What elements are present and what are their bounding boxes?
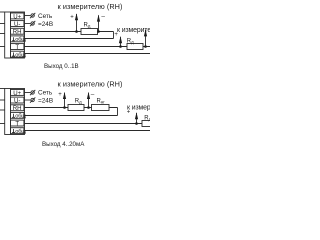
- node T +: [119, 45, 122, 48]
- terminal cell T: [11, 44, 24, 50]
- arrowhead + (meter T): [119, 36, 122, 43]
- terminal cell общ (1): [11, 36, 24, 42]
- svg-text:общ: общ: [15, 129, 26, 135]
- wire общ 2: [25, 130, 151, 132]
- wire U- to power terminal: [25, 23, 31, 25]
- wire общ 1: [25, 38, 114, 40]
- svg-text:Сеть: Сеть: [38, 13, 53, 20]
- terminal cell общ (2): [11, 128, 24, 134]
- terminal cell общ (1): [11, 112, 24, 118]
- svg-text:Выход 4..20мА: Выход 4..20мА: [42, 141, 85, 148]
- stub wire left mid: [0, 109, 5, 111]
- terminal label общ 2: [12, 52, 26, 58]
- terminal cell U-: [11, 97, 24, 103]
- svg-text:U+: U+: [13, 13, 21, 20]
- terminal label общ 1: [12, 37, 26, 43]
- svg-text:–: –: [91, 91, 95, 98]
- svg-text:RH: RH: [13, 105, 22, 112]
- terminal block X1 (top) outer: [5, 12, 25, 58]
- wire U- to power terminal: [25, 99, 31, 101]
- svg-text:+: +: [70, 14, 74, 20]
- svg-text:U+: U+: [13, 90, 21, 97]
- terminal symbol Сеть: [31, 91, 34, 94]
- svg-text:+: +: [114, 32, 118, 38]
- arrowhead - (meter RH): [97, 15, 100, 22]
- svg-text:общ: общ: [15, 114, 26, 120]
- svg-text:Rд: Rд: [84, 23, 91, 29]
- svg-text:Сеть: Сеть: [38, 90, 53, 97]
- stub wire left U-: [0, 99, 5, 101]
- terminal symbol =24В: [31, 22, 34, 25]
- terminal cell U+: [11, 90, 24, 96]
- wire общ 1: [25, 115, 118, 117]
- svg-text:U-: U-: [14, 21, 20, 28]
- arrow stem + (meter RH): [64, 93, 66, 108]
- resistor Rд (RH) body: [68, 105, 84, 111]
- svg-text:RH: RH: [13, 29, 22, 36]
- terminal cell U+: [11, 13, 24, 19]
- resistor Rд (RH) body: [81, 29, 98, 35]
- svg-text:+: +: [58, 92, 62, 98]
- stub wire left top edge: [0, 11, 5, 13]
- arrowhead - (meter RH): [87, 92, 90, 99]
- svg-text:=24В: =24В: [38, 97, 53, 104]
- resistor Rд (T) body: [142, 121, 155, 127]
- svg-text:Rнг: Rнг: [97, 99, 106, 105]
- terminal block X2 divider: [10, 89, 12, 135]
- svg-text:к измерителю (RH): к измерителю (RH): [58, 79, 123, 88]
- wire T: [25, 123, 151, 125]
- svg-text:U-: U-: [14, 97, 20, 104]
- svg-text:=24В: =24В: [38, 21, 53, 28]
- node T -: [144, 45, 147, 48]
- stub wire left T: [0, 123, 5, 125]
- terminal block X1 divider: [10, 12, 12, 58]
- wire RH: [25, 31, 114, 33]
- node T +: [135, 122, 138, 125]
- terminal cell общ (2): [11, 51, 24, 57]
- terminal cell RH: [11, 105, 24, 111]
- terminal symbol =24В: [31, 98, 34, 101]
- arrow stem + (meter T): [136, 113, 138, 124]
- svg-text:общ: общ: [15, 52, 26, 58]
- svg-text:Т: Т: [15, 44, 19, 51]
- node RH -: [97, 30, 100, 33]
- arrow stem + (meter T): [120, 37, 122, 47]
- stub wire left mid: [0, 33, 5, 35]
- terminal symbol Сеть: [31, 14, 34, 17]
- arrowhead + (meter RH): [63, 92, 66, 99]
- resistor Rд (T) body: [127, 44, 143, 50]
- arrowhead - (meter T): [144, 29, 147, 36]
- wire T: [25, 46, 151, 48]
- arrow stem - (meter RH): [88, 93, 90, 108]
- svg-text:к измерителю: к измерителю: [127, 105, 150, 112]
- arrowhead + (meter RH): [75, 13, 78, 20]
- terminal label общ 1: [12, 114, 26, 120]
- svg-text:Выход 0..1В: Выход 0..1В: [44, 63, 79, 70]
- node RH -: [87, 106, 90, 109]
- node RH +: [75, 30, 78, 33]
- resistor Rнг body: [92, 105, 110, 111]
- svg-text:+: +: [127, 109, 131, 115]
- wire vertical RH to общ: [117, 108, 119, 116]
- svg-text:к измерителю: к измерителю: [117, 27, 150, 34]
- terminal label общ 2: [12, 129, 26, 135]
- terminal cell RH: [11, 28, 24, 34]
- svg-text:к измерителю (RH): к измерителю (RH): [58, 2, 123, 11]
- terminal cell T: [11, 120, 24, 126]
- arrow stem + (meter RH): [76, 14, 78, 32]
- wire общ 2: [25, 53, 151, 55]
- svg-text:–: –: [101, 14, 105, 21]
- wire vertical RH to общ: [113, 32, 115, 39]
- svg-text:Т: Т: [15, 120, 19, 127]
- stub wire left U-: [0, 23, 5, 25]
- svg-text:Rд: Rд: [144, 116, 150, 122]
- stub wire left top edge: [0, 88, 5, 90]
- wire U+ to power terminal: [25, 92, 31, 94]
- wire U+ to power terminal: [25, 15, 31, 17]
- svg-text:Rд: Rд: [127, 39, 134, 45]
- wire RH: [25, 107, 118, 109]
- terminal block X2 (bottom) outer: [5, 89, 25, 135]
- svg-text:общ: общ: [15, 37, 26, 43]
- terminal cell U-: [11, 21, 24, 27]
- svg-text:Rд: Rд: [75, 99, 82, 105]
- node RH +: [63, 106, 66, 109]
- arrowhead + (meter T): [135, 112, 138, 119]
- stub wire left T: [0, 46, 5, 48]
- arrow stem - (meter T): [145, 30, 147, 47]
- arrow stem - (meter RH): [98, 15, 100, 31]
